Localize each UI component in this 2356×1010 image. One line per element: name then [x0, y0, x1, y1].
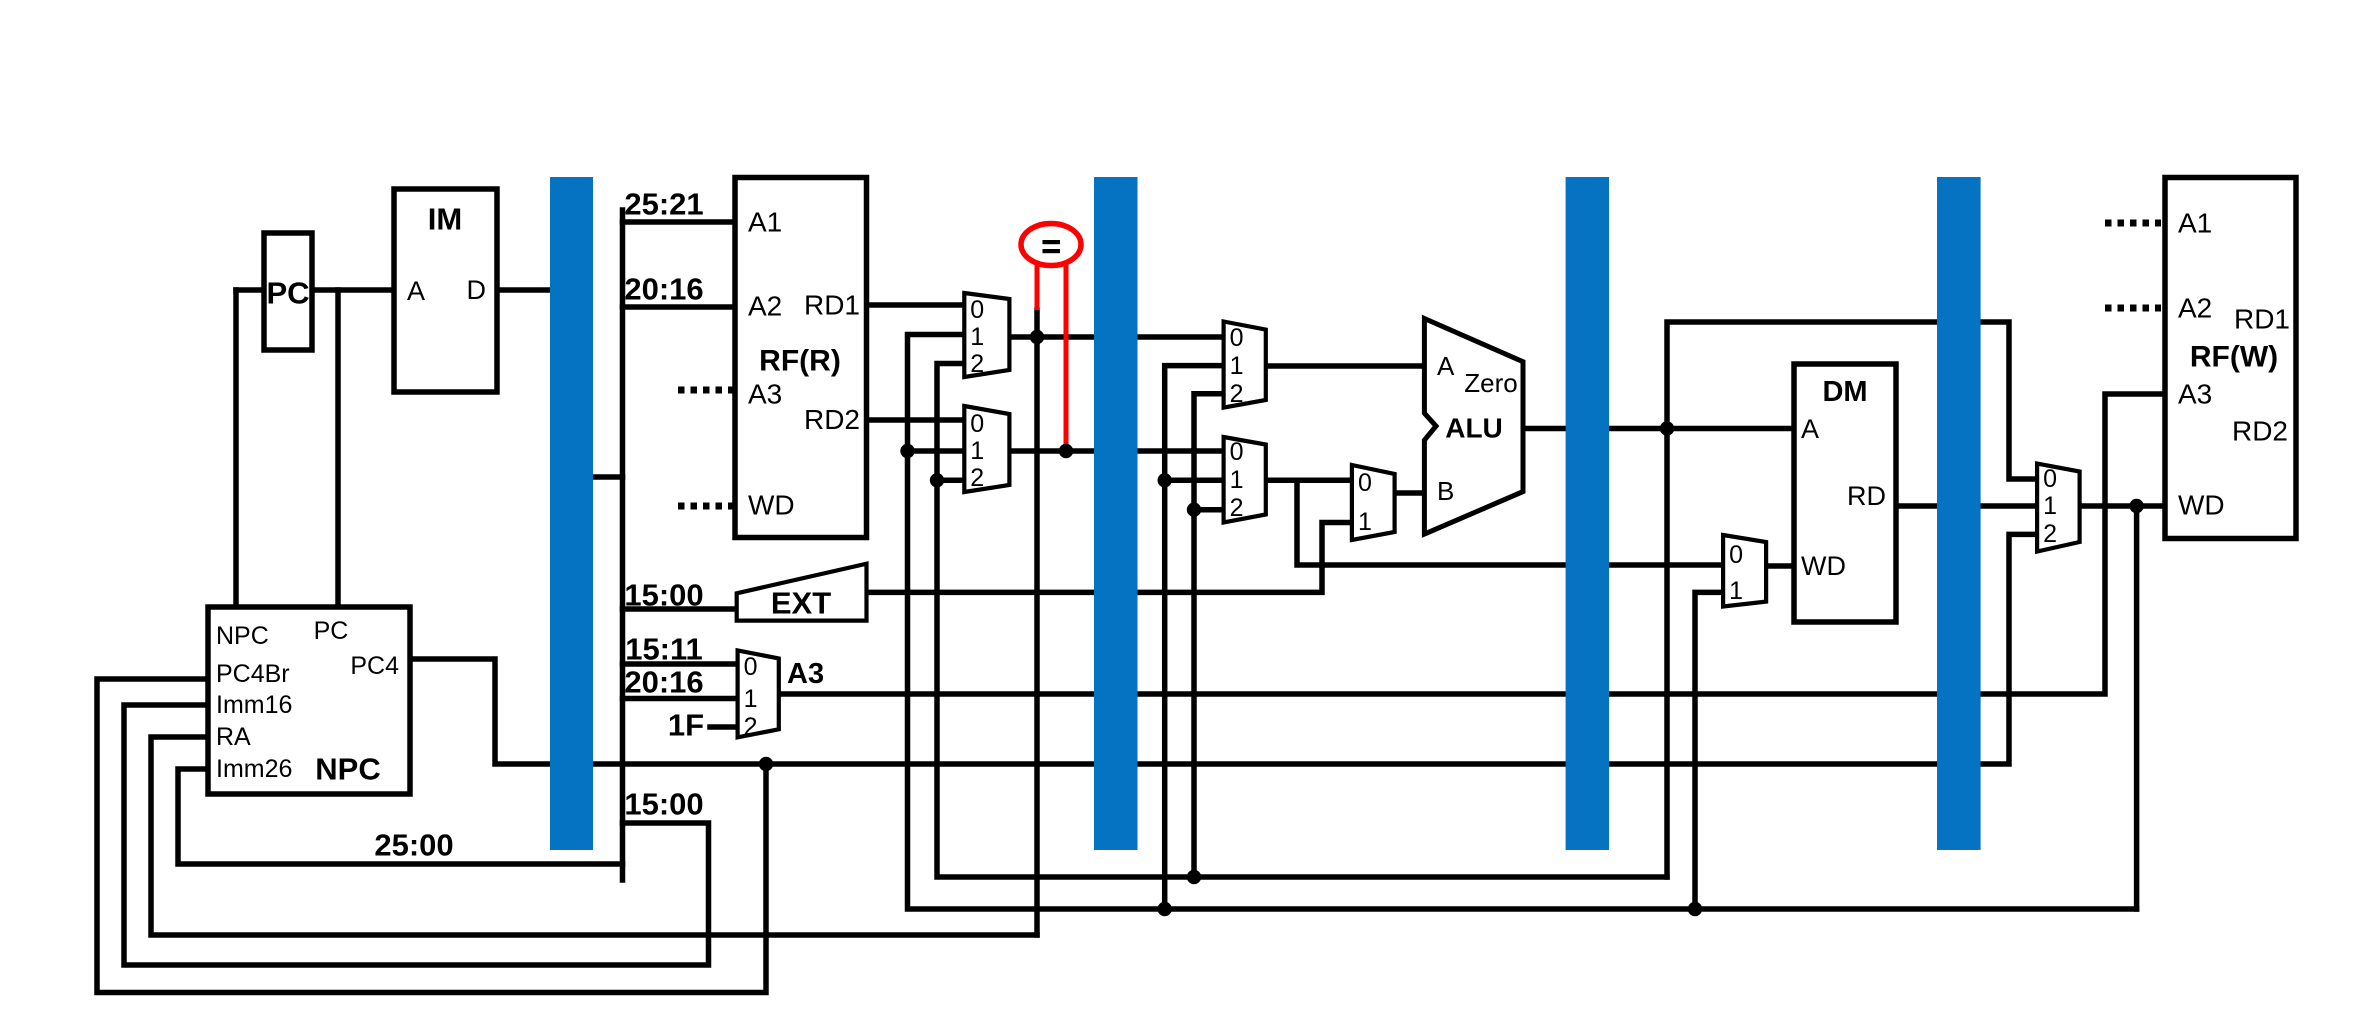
svg-text:PC4Br: PC4Br — [216, 660, 290, 688]
svg-text:IM: IM — [428, 202, 462, 237]
svg-text:D: D — [467, 275, 487, 305]
svg-text:RD2: RD2 — [2232, 416, 2288, 447]
svg-text:2: 2 — [1230, 494, 1244, 522]
svg-text:2: 2 — [1230, 380, 1244, 408]
svg-text:RA: RA — [216, 723, 251, 751]
svg-text:1: 1 — [1358, 508, 1372, 536]
svg-text:15:00: 15:00 — [624, 787, 703, 822]
svg-text:20:16: 20:16 — [624, 665, 703, 700]
svg-text:EXT: EXT — [771, 586, 831, 621]
svg-text:2: 2 — [744, 713, 758, 741]
svg-text:RD1: RD1 — [2234, 304, 2290, 335]
svg-text:2: 2 — [970, 464, 984, 492]
svg-text:A2: A2 — [2178, 293, 2212, 324]
svg-text:15:00: 15:00 — [624, 578, 703, 613]
svg-text:Imm26: Imm26 — [216, 755, 292, 783]
svg-text:20:16: 20:16 — [624, 272, 703, 307]
svg-text:0: 0 — [744, 653, 758, 681]
svg-text:RD1: RD1 — [804, 290, 860, 321]
svg-text:ALU: ALU — [1445, 413, 1503, 444]
svg-text:0: 0 — [2043, 465, 2057, 493]
svg-text:NPC: NPC — [315, 752, 380, 787]
svg-text:A: A — [1437, 351, 1455, 381]
svg-text:A3: A3 — [2178, 379, 2212, 410]
svg-text:WD: WD — [748, 490, 795, 521]
svg-text:Zero: Zero — [1464, 368, 1517, 398]
svg-text:A3: A3 — [748, 379, 782, 410]
svg-text:PC: PC — [266, 276, 309, 311]
svg-text:WD: WD — [2178, 490, 2225, 521]
svg-text:0: 0 — [1358, 469, 1372, 497]
svg-text:A1: A1 — [748, 207, 782, 238]
svg-text:RF(W): RF(W) — [2190, 341, 2278, 374]
svg-text:RD: RD — [1847, 481, 1886, 511]
svg-text:1F: 1F — [668, 708, 704, 743]
svg-text:WD: WD — [1801, 551, 1846, 581]
svg-text:A: A — [1801, 414, 1819, 444]
svg-text:0: 0 — [1230, 324, 1244, 352]
svg-text:1: 1 — [1729, 577, 1743, 605]
svg-text:0: 0 — [970, 410, 984, 438]
svg-text:A2: A2 — [748, 291, 782, 322]
svg-text:PC4: PC4 — [350, 652, 399, 680]
svg-text:A1: A1 — [2178, 208, 2212, 239]
svg-text:1: 1 — [1230, 352, 1244, 380]
svg-text:25:00: 25:00 — [374, 828, 453, 863]
svg-text:NPC: NPC — [216, 622, 269, 650]
svg-text:1: 1 — [970, 323, 984, 351]
svg-text:2: 2 — [970, 350, 984, 378]
svg-text:DM: DM — [1822, 376, 1867, 408]
svg-text:25:21: 25:21 — [624, 187, 703, 222]
svg-text:2: 2 — [2043, 520, 2057, 548]
svg-text:RF(R): RF(R) — [759, 345, 841, 378]
svg-text:1: 1 — [744, 685, 758, 713]
svg-text:1: 1 — [1230, 466, 1244, 494]
svg-text:15:11: 15:11 — [625, 632, 703, 667]
svg-text:1: 1 — [970, 437, 984, 465]
svg-text:B: B — [1437, 476, 1454, 506]
svg-text:A: A — [407, 276, 425, 306]
svg-text:0: 0 — [1230, 438, 1244, 466]
svg-text:RD2: RD2 — [804, 404, 860, 435]
svg-text:Imm16: Imm16 — [216, 691, 292, 719]
svg-text:0: 0 — [1729, 541, 1743, 569]
svg-text:1: 1 — [2043, 492, 2057, 520]
svg-text:A3: A3 — [787, 658, 824, 690]
svg-text:PC: PC — [314, 617, 349, 645]
svg-text:0: 0 — [970, 296, 984, 324]
